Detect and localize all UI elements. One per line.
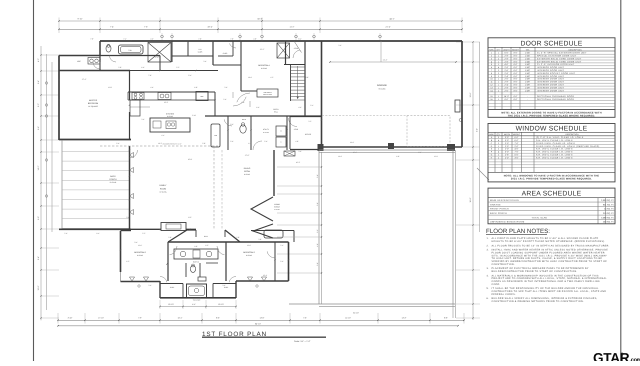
svg-text:36'-8": 36'-8" — [469, 197, 472, 202]
svg-text:13'-2": 13'-2" — [402, 317, 407, 320]
svg-text:S.H. VINYL CLEAR I.G. LOW-E: S.H. VINYL CLEAR I.G. LOW-E — [536, 154, 573, 157]
svg-text:1-3/8": 1-3/8" — [525, 75, 531, 78]
svg-text:S.H. VINYL CLEAR I.G. LOW-E: S.H. VINYL CLEAR I.G. LOW-E — [536, 139, 573, 142]
svg-text:4'-2": 4'-2" — [37, 58, 40, 62]
svg-text:MRK: MRK — [489, 133, 494, 136]
svg-text:3'-0": 3'-0" — [505, 151, 509, 154]
svg-text:1-3/8": 1-3/8" — [525, 84, 531, 87]
svg-text:BACK: BACK — [110, 175, 116, 178]
svg-text:EXTERIOR SOLID CORE DOOR UNIT: EXTERIOR SOLID CORE DOOR UNIT — [537, 60, 582, 63]
svg-text:10'-10": 10'-10" — [218, 303, 224, 306]
svg-text:CONSTRUCTION.: CONSTRUCTION. — [492, 263, 515, 266]
svg-text:2'-8": 2'-8" — [126, 216, 130, 219]
svg-text:2'-0": 2'-0" — [505, 145, 509, 148]
svg-text:S.H. VINYL CLEAR I.G. LOW-E: S.H. VINYL CLEAR I.G. LOW-E — [536, 148, 573, 151]
svg-text:(2) 2'-8" S.H. VINYL CLEAR I.G: (2) 2'-8" S.H. VINYL CLEAR I.G. LOW-E — [536, 136, 584, 139]
svg-text:FEDERAL CODES.: FEDERAL CODES. — [492, 293, 516, 296]
svg-text:1-3/4": 1-3/4" — [525, 60, 531, 63]
svg-text:S.H. VINYL CLEAR I.G. LOW-E: S.H. VINYL CLEAR I.G. LOW-E — [536, 151, 573, 154]
svg-text:7'-6": 7'-6" — [144, 26, 148, 29]
svg-text:2'-8": 2'-8" — [505, 55, 509, 58]
svg-text:310 SQ. FT.: 310 SQ. FT. — [603, 212, 615, 215]
svg-text:3'-4": 3'-4" — [134, 241, 138, 244]
svg-text:12'-4": 12'-4" — [263, 274, 268, 277]
svg-text:21'-4": 21'-4" — [385, 26, 390, 29]
svg-text:FLOOR JOIST LOADING SUPPORT UN: FLOOR JOIST LOADING SUPPORT UNDER FLOORE… — [492, 251, 605, 254]
svg-text:2'-0": 2'-0" — [505, 142, 509, 145]
svg-text:9' CLNG: 9' CLNG — [274, 209, 279, 211]
svg-text:8'-4": 8'-4" — [37, 256, 40, 260]
svg-text:PROJECT ARE TO CONFORM WITH AL: PROJECT ARE TO CONFORM WITH ALL LOCAL, S… — [492, 277, 608, 280]
svg-text:CL 2'-8" SPECIAL EXTERIOR DOOR: CL 2'-8" SPECIAL EXTERIOR DOOR UNIT — [537, 52, 587, 55]
svg-text:16' SQUARE: 16' SQUARE — [88, 105, 99, 108]
svg-text:KITCHEN: KITCHEN — [166, 113, 175, 116]
svg-text:4.: 4. — [487, 274, 489, 277]
svg-text:INTERIOR POCKET DOOR UNIT: INTERIOR POCKET DOOR UNIT — [537, 72, 576, 75]
svg-text:7'-0": 7'-0" — [515, 151, 519, 154]
svg-text:7'-4": 7'-4" — [110, 26, 114, 29]
svg-text:7'-6": 7'-6" — [303, 317, 307, 320]
svg-text:8'-0": 8'-0" — [514, 69, 518, 72]
svg-text:FAMILY: FAMILY — [160, 184, 168, 187]
svg-text:8'-8": 8'-8" — [444, 317, 448, 320]
svg-text:5'-0": 5'-0" — [316, 174, 319, 178]
svg-text:1.: 1. — [487, 237, 489, 240]
svg-text:9' CLNG: 9' CLNG — [110, 181, 117, 184]
svg-text:44'-2": 44'-2" — [389, 18, 394, 21]
svg-text:2'-8": 2'-8" — [505, 57, 509, 60]
svg-text:BEDROOM: BEDROOM — [88, 102, 99, 105]
svg-text:HEIGHTS TO BE 8'-00" EXCEPT TH: HEIGHTS TO BE 8'-00" EXCEPT THOSE NOTED … — [492, 240, 606, 243]
svg-text:DESCRIPTION: DESCRIPTION — [569, 48, 583, 51]
svg-text:3'-0": 3'-0" — [515, 156, 519, 159]
svg-text:INTERIOR DOOR UNIT: INTERIOR DOOR UNIT — [537, 84, 565, 87]
svg-text:DINING: DINING — [244, 167, 251, 170]
svg-text:8'-0": 8'-0" — [514, 57, 518, 60]
svg-text:9'-4": 9'-4" — [37, 80, 40, 84]
svg-text:10'-2": 10'-2" — [296, 161, 301, 164]
svg-text:DOOR SCHEDULE: DOOR SCHEDULE — [521, 40, 583, 47]
svg-text:1-3/4": 1-3/4" — [525, 57, 531, 60]
svg-text:BACK PORCH: BACK PORCH — [490, 212, 507, 215]
svg-text:UTILITY: UTILITY — [263, 128, 270, 131]
svg-text:2'-8": 2'-8" — [505, 72, 509, 75]
svg-text:8'-0": 8'-0" — [514, 75, 518, 78]
svg-text:1-3/4": 1-3/4" — [525, 52, 531, 55]
svg-text:4'-0": 4'-0" — [316, 243, 319, 247]
svg-text:5.: 5. — [487, 287, 489, 290]
svg-text:CL 2'-6" INTERIOR DOOR UNIT: CL 2'-6" INTERIOR DOOR UNIT — [537, 63, 575, 66]
svg-text:FLOOR PLAN NOTES:: FLOOR PLAN NOTES: — [486, 228, 550, 235]
svg-text:1-3/8": 1-3/8" — [525, 63, 531, 66]
svg-text:2,093 SQ. FT.: 2,093 SQ. FT. — [601, 199, 614, 202]
svg-text:8'-0": 8'-0" — [514, 78, 518, 81]
svg-text:VERIFIED BY OWNER/CONTRACTOR W: VERIFIED BY OWNER/CONTRACTOR WITH HVAC C… — [492, 260, 608, 263]
svg-text:44 SQ. FT.: 44 SQ. FT. — [604, 208, 614, 211]
svg-text:9' CLNG: 9' CLNG — [379, 88, 386, 91]
svg-text:9'-6": 9'-6" — [37, 126, 40, 130]
svg-text:84'-10": 84'-10" — [255, 322, 261, 325]
svg-text:5'-0": 5'-0" — [515, 154, 519, 157]
svg-text:8'-0": 8'-0" — [514, 98, 518, 101]
svg-text:4'-0": 4'-0" — [505, 63, 509, 66]
svg-text:16'-0": 16'-0" — [504, 95, 509, 98]
svg-text:UNFINISHED BONUS ROOM: UNFINISHED BONUS ROOM — [490, 221, 524, 224]
svg-text:14'-2": 14'-2" — [37, 165, 40, 170]
svg-text:FIXED VINYL CLEAR I.G. LOW-E: FIXED VINYL CLEAR I.G. LOW-E — [536, 142, 576, 145]
svg-text:INTERIOR DOOR UNIT: INTERIOR DOOR UNIT — [537, 69, 565, 72]
svg-text:INTERIOR DOOR UNIT: INTERIOR DOOR UNIT — [537, 78, 565, 81]
svg-text:4'-0": 4'-0" — [298, 106, 302, 109]
svg-text:EXTERIOR SOLID CORE DOOR UNIT: EXTERIOR SOLID CORE DOOR UNIT — [537, 57, 582, 60]
svg-text:S.H. VINYL CLEAR I.G. LOW-E: S.H. VINYL CLEAR I.G. LOW-E — [536, 156, 573, 159]
svg-text:IT SHALL BE THE RESPONSIBILITY: IT SHALL BE THE RESPONSIBILITY OF THE BU… — [492, 287, 600, 290]
svg-text:33'-4": 33'-4" — [207, 26, 212, 29]
svg-text:6'-0": 6'-0" — [505, 52, 509, 55]
svg-text:CODES AS DESCRIBED IN THE INTE: CODES AS DESCRIBED IN THE INTERNATIONAL … — [492, 280, 600, 283]
svg-text:34'-10": 34'-10" — [353, 312, 359, 315]
svg-text:6'-8": 6'-8" — [241, 101, 245, 104]
svg-text:INTERIOR DOOR UNIT: INTERIOR DOOR UNIT — [537, 66, 565, 69]
svg-text:50'-8": 50'-8" — [257, 18, 262, 21]
svg-text:13'-2": 13'-2" — [164, 101, 169, 104]
svg-text:HALL: HALL — [204, 235, 208, 238]
svg-text:10'-4": 10'-4" — [178, 317, 183, 320]
svg-text:2'-0": 2'-0" — [515, 145, 519, 148]
svg-text:1-3/8": 1-3/8" — [525, 89, 531, 92]
svg-text:17'-0": 17'-0" — [245, 154, 250, 157]
svg-text:MRK: MRK — [489, 48, 494, 51]
svg-text:SECTIONAL OVERHEAD DOOR: SECTIONAL OVERHEAD DOOR — [537, 95, 574, 98]
svg-text:10'-10": 10'-10" — [168, 303, 174, 306]
svg-text:PLACEMENT OF ELECTRICAL BREAKE: PLACEMENT OF ELECTRICAL BREAKER PANEL TO… — [492, 267, 589, 270]
svg-text:8'-0": 8'-0" — [514, 72, 518, 75]
svg-text:WIDTH: WIDTH — [503, 48, 510, 51]
svg-text:GARAGE: GARAGE — [490, 203, 501, 206]
svg-text:8'-0": 8'-0" — [514, 55, 518, 58]
svg-text:10'-6": 10'-6" — [469, 92, 472, 97]
svg-text:6'-2": 6'-2" — [205, 244, 209, 247]
svg-text:8'-2": 8'-2" — [188, 216, 192, 219]
svg-text:1-3/8": 1-3/8" — [525, 78, 531, 81]
svg-text:WINDOW SCHEDULE: WINDOW SCHEDULE — [516, 126, 588, 133]
svg-text:5'-4": 5'-4" — [188, 74, 192, 77]
svg-text:4'-0": 4'-0" — [515, 148, 519, 151]
svg-text:2'-0": 2'-0" — [505, 78, 509, 81]
svg-text:PORCH: PORCH — [109, 178, 117, 181]
svg-text:400 SQ. FT.: 400 SQ. FT. — [603, 221, 615, 224]
svg-text:BEDROOM-3: BEDROOM-3 — [243, 251, 254, 254]
svg-text:2'-6": 2'-6" — [505, 69, 509, 72]
svg-text:9'-10": 9'-10" — [77, 18, 82, 21]
svg-text:5'-6": 5'-6" — [230, 123, 234, 126]
svg-text:11'-6": 11'-6" — [138, 244, 143, 247]
svg-text:3.: 3. — [487, 267, 489, 270]
svg-text:21'-4": 21'-4" — [383, 59, 388, 62]
svg-text:2'-0": 2'-0" — [505, 156, 509, 159]
svg-text:17'-10": 17'-10" — [98, 317, 104, 320]
svg-text:17'-4": 17'-4" — [82, 78, 87, 81]
svg-text:821 SQ. FT.: 821 SQ. FT. — [603, 203, 615, 206]
svg-text:14'-0": 14'-0" — [350, 141, 355, 144]
svg-text:8'-0": 8'-0" — [514, 84, 518, 87]
svg-text:WIDTH: WIDTH — [504, 133, 511, 136]
svg-text:1-3/8": 1-3/8" — [525, 72, 531, 75]
svg-text:1-3/8": 1-3/8" — [525, 86, 531, 89]
svg-text:6'-0": 6'-0" — [515, 139, 519, 142]
svg-text:TOTAL SLAB: TOTAL SLAB — [532, 216, 548, 219]
svg-text:MAIN HEATED/COOLED: MAIN HEATED/COOLED — [490, 199, 519, 202]
svg-text:INSTALL HVAC AND WATER HEATER: INSTALL HVAC AND WATER HEATER IN ATTIC U… — [492, 249, 609, 252]
svg-text:2'-4": 2'-4" — [505, 84, 509, 87]
svg-text:11'-2": 11'-2" — [290, 26, 295, 29]
svg-text:HEIGHT: HEIGHT — [512, 48, 520, 51]
svg-text:1-3/4": 1-3/4" — [525, 55, 531, 58]
svg-text:3,088 SQ. FT.: 3,088 SQ. FT. — [601, 216, 614, 219]
svg-text:THE 2021 I.R.C. PROVIDE TEMP: THE 2021 I.R.C. PROVIDE TEMPERED GLASS W… — [508, 114, 596, 117]
svg-text:4'-4": 4'-4" — [192, 303, 196, 306]
svg-text:8'-6": 8'-6" — [216, 317, 220, 320]
svg-text:3'-10": 3'-10" — [68, 317, 73, 320]
svg-text:AREA SCHEDULE: AREA SCHEDULE — [522, 191, 582, 198]
svg-text:6.: 6. — [487, 297, 489, 300]
svg-text:HEIGHT: HEIGHT — [513, 133, 521, 136]
svg-text:9'-0": 9'-0" — [37, 216, 40, 220]
svg-text:ROOM: ROOM — [244, 170, 250, 173]
svg-text:SITS. IN ACCORDANCE WITH THE 2: SITS. IN ACCORDANCE WITH THE 2021 I.R.C.… — [492, 254, 608, 257]
svg-text:ALL FLOOR TRUSSES TO BE 14" IN: ALL FLOOR TRUSSES TO BE 14" IN DEPTH AS … — [492, 244, 610, 247]
svg-text:BEDROOM-2: BEDROOM-2 — [134, 251, 145, 254]
svg-text:CONSTRUCTION & FRAMING METHODS: CONSTRUCTION & FRAMING METHODS PRIOR TO … — [492, 300, 584, 303]
svg-text:SECTIONAL OVERHEAD DOOR: SECTIONAL OVERHEAD DOOR — [537, 98, 574, 101]
svg-text:2'-8": 2'-8" — [505, 60, 509, 63]
svg-text:7'-8": 7'-8" — [148, 74, 152, 77]
svg-text:CODE.: CODE. — [492, 283, 501, 286]
svg-text:2021 I.R.C. PROVIDE TEMPERED: 2021 I.R.C. PROVIDE TEMPERED GLASS WHERE… — [511, 178, 592, 181]
svg-text:13'-6": 13'-6" — [260, 317, 265, 320]
svg-text:8'-0": 8'-0" — [514, 60, 518, 63]
svg-text:8'-0": 8'-0" — [505, 98, 509, 101]
svg-text:INTERIOR DOOR UNIT: INTERIOR DOOR UNIT — [537, 75, 565, 78]
svg-text:2.: 2. — [487, 244, 489, 247]
svg-text:INTERIOR DOOR UNIT: INTERIOR DOOR UNIT — [537, 86, 565, 89]
svg-text:1-3/8": 1-3/8" — [525, 81, 531, 84]
svg-text:2'-6": 2'-6" — [505, 89, 509, 92]
svg-text:7'-0": 7'-0" — [515, 142, 519, 145]
svg-text:5'-0": 5'-0" — [316, 202, 319, 206]
svg-text:BEDROOM-4: BEDROOM-4 — [258, 64, 269, 67]
svg-text:8'-0": 8'-0" — [514, 95, 518, 98]
svg-text:2'-8": 2'-8" — [505, 154, 509, 157]
svg-text:8'-0": 8'-0" — [514, 52, 518, 55]
svg-text:2'-6": 2'-6" — [316, 229, 319, 233]
svg-text:ALL MATERIALS & WORKMANSHIP IN: ALL MATERIALS & WORKMANSHIP INVOLVED IN … — [492, 274, 599, 277]
svg-text:8'-2": 8'-2" — [37, 103, 40, 107]
svg-text:2'-8": 2'-8" — [505, 86, 509, 89]
svg-text:2'-4": 2'-4" — [505, 75, 509, 78]
svg-text:3'-0": 3'-0" — [505, 139, 509, 142]
svg-text:Scale: 1/4" = 1'-0": Scale: 1/4" = 1'-0" — [294, 340, 311, 343]
svg-text:TUB/SHWR: TUB/SHWR — [193, 300, 200, 302]
svg-text:MASTER: MASTER — [89, 99, 98, 102]
svg-text:DESCRIPTION: DESCRIPTION — [566, 133, 580, 136]
svg-text:ROOM: ROOM — [160, 187, 167, 190]
svg-text:2'-8": 2'-8" — [505, 81, 509, 84]
svg-text:TO HVAC UNIT. RETURN AIR DUCTS: TO HVAC UNIT. RETURN AIR DUCTS, CHASE, &… — [492, 257, 603, 260]
svg-text:8'-0": 8'-0" — [514, 86, 518, 89]
svg-text:FRONT PORCH: FRONT PORCH — [490, 208, 509, 211]
svg-text:FIXED VINYL CLEAR I.G. LOW-E (: FIXED VINYL CLEAR I.G. LOW-E (OBSCURE GL… — [536, 145, 600, 148]
svg-text:2'-8": 2'-8" — [505, 66, 509, 69]
svg-text:BATH-2: BATH-2 — [193, 261, 199, 264]
svg-text:11'-2": 11'-2" — [260, 48, 265, 51]
svg-text:BUILDER SHALL VERIFY ALL DIMEN: BUILDER SHALL VERIFY ALL DIMENSIONS, INT… — [492, 297, 598, 300]
svg-text:15'-8": 15'-8" — [188, 158, 193, 161]
svg-text:10'-0": 10'-0" — [37, 285, 40, 290]
svg-text:5'-0": 5'-0" — [316, 262, 319, 266]
svg-text:BUILDER/CONTRACTOR PRIOR TO ST: BUILDER/CONTRACTOR PRIOR TO START OF CON… — [492, 270, 578, 273]
svg-text:CONTRACTORS TO SEE THAT ALL IT: CONTRACTORS TO SEE THAT ALL ITEMS MEET O… — [492, 290, 607, 293]
svg-text:SPECIAL EXTERIOR DOOR UNIT: SPECIAL EXTERIOR DOOR UNIT — [537, 55, 577, 58]
svg-text:INTERIOR DOOR UNIT: INTERIOR DOOR UNIT — [537, 81, 565, 84]
svg-text:3.: 3. — [487, 249, 489, 252]
svg-text:14'-10": 14'-10" — [345, 317, 351, 320]
svg-text:OFFICE: OFFICE — [305, 133, 312, 136]
svg-text:8'-0": 8'-0" — [514, 81, 518, 84]
svg-text:GARAGE: GARAGE — [377, 84, 388, 87]
svg-text:11'-6": 11'-6" — [247, 244, 252, 247]
svg-text:7'-9": 7'-9" — [138, 317, 142, 320]
svg-text:8'-0": 8'-0" — [514, 89, 518, 92]
svg-text:1-3/8": 1-3/8" — [525, 69, 531, 72]
svg-text:3'-0": 3'-0" — [505, 136, 509, 139]
svg-text:3'-8": 3'-8" — [305, 76, 309, 79]
svg-text:2'-0": 2'-0" — [505, 148, 509, 151]
svg-text:ALL FIRST FLOOR PLATE HEIGHTS: ALL FIRST FLOOR PLATE HEIGHTS TO BE 9'-0… — [492, 237, 599, 240]
svg-text:6'-4": 6'-4" — [476, 128, 479, 132]
svg-text:INTERIOR DOOR UNIT: INTERIOR DOOR UNIT — [537, 89, 565, 92]
svg-text:6'-0": 6'-0" — [515, 136, 519, 139]
svg-text:8'-0": 8'-0" — [514, 66, 518, 69]
svg-text:1-3/8": 1-3/8" — [525, 66, 531, 69]
svg-text:8'-0": 8'-0" — [514, 63, 518, 66]
